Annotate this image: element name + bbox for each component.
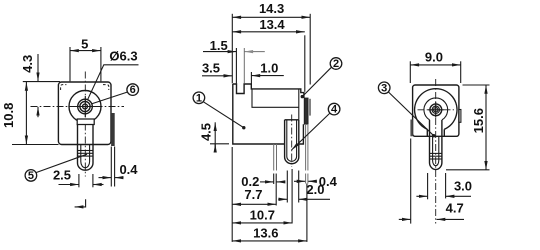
svg-text:7.7: 7.7 — [244, 187, 262, 202]
body left edge and bottom — [233, 84, 304, 144]
dim 13.4 line — [232, 31, 304, 33]
slot rectangle — [77, 119, 94, 125]
pin rings — [78, 150, 94, 152]
dim 1.5 extension lines — [235, 48, 237, 83]
svg-text:1.0: 1.0 — [260, 60, 278, 75]
svg-text:13.6: 13.6 — [253, 225, 278, 240]
balloon 5 — [25, 170, 37, 182]
left extension line — [231, 147, 233, 242]
back lug — [305, 125, 307, 171]
svg-text:0.4: 0.4 — [319, 174, 338, 189]
dim 14.3 extension lines — [231, 14, 233, 84]
dim 0.2 arrows — [260, 181, 274, 183]
dim 5 extension lines — [69, 47, 71, 81]
svg-text:4: 4 — [331, 104, 338, 116]
pin below body: outer walls — [77, 125, 79, 164]
dim 15.6 line — [485, 85, 487, 170]
dim 10.7 extension line — [291, 169, 293, 224]
balloon 4 — [328, 103, 340, 115]
balloon 1 — [193, 92, 205, 104]
svg-text:14.3: 14.3 — [259, 1, 284, 16]
balloon 6 — [127, 84, 139, 96]
svg-text:1.5: 1.5 — [210, 38, 228, 53]
dim 15.6 extension lines — [463, 84, 490, 86]
rear terminal plate (dark) — [304, 98, 308, 124]
bottom edge extension line — [210, 143, 229, 145]
center pin ring inner — [80, 101, 90, 111]
body outline — [413, 85, 459, 136]
dim 13.6 extension line — [306, 184, 308, 242]
internal shield lines — [252, 89, 299, 120]
svg-text:5: 5 — [28, 170, 34, 182]
svg-text:6: 6 — [130, 84, 136, 96]
svg-text:1: 1 — [196, 93, 202, 105]
pin rings — [430, 152, 442, 154]
dim 4.3 lower arrow — [37, 107, 39, 117]
balloon 2 — [330, 58, 342, 70]
svg-text:10.7: 10.7 — [250, 207, 275, 222]
svg-text:5: 5 — [81, 37, 88, 52]
vertical center line — [435, 79, 437, 224]
balloon 4 leader — [292, 113, 330, 150]
svg-text:2.5: 2.5 — [53, 168, 71, 183]
dim 7.7 line — [232, 203, 276, 205]
dim 10.8 line — [25, 82, 27, 144]
dia 6.3 leader — [87, 65, 138, 101]
pin bottom arcs — [430, 163, 442, 170]
svg-text:10.8: 10.8 — [1, 103, 16, 128]
dim 10.7 line — [232, 222, 292, 224]
dim 5 line — [70, 50, 101, 52]
svg-text:4.7: 4.7 — [446, 200, 464, 215]
pin bottom outer arc — [78, 163, 94, 170]
pcb datum mark — [75, 199, 86, 207]
balloon 3 — [378, 82, 390, 94]
pin inner walls — [80, 145, 82, 162]
dim 4.7 extension line — [410, 139, 412, 224]
solid crosshair — [75, 106, 96, 108]
body outline — [58, 82, 111, 145]
dim 9.0 line — [410, 64, 460, 66]
dim 14.3 line — [232, 16, 310, 18]
dome neck lines — [426, 129, 428, 136]
front lug — [273, 144, 275, 171]
dim 3.0 arrows — [416, 195, 427, 197]
dim 0.4 arrows — [294, 180, 306, 182]
svg-text:Ø6.3: Ø6.3 — [109, 49, 137, 64]
lug extension lines — [273, 174, 275, 185]
dim 0.4 extension lines — [110, 147, 112, 187]
horizontal center line — [418, 109, 455, 111]
dim 3.0 extension lines — [427, 173, 429, 199]
center pin tip circle — [83, 104, 88, 109]
balloon 1 leader — [203, 102, 244, 128]
svg-text:4.3: 4.3 — [20, 55, 35, 73]
vertical center line — [84, 72, 86, 177]
svg-text:3: 3 — [381, 82, 387, 94]
right side tab — [459, 110, 461, 123]
dim 9.0 extension lines — [409, 61, 411, 83]
dim 2.5 extension lines — [78, 174, 80, 187]
dim 4.5 line — [214, 122, 216, 126]
body top edge with slot and steps — [233, 84, 304, 98]
dim 3.5 arrow — [202, 75, 232, 77]
dim 2.0 extension lines — [286, 171, 288, 203]
balloon 3 leader — [388, 92, 433, 136]
inner keyhole arc — [424, 98, 448, 120]
svg-text:4.5: 4.5 — [198, 123, 213, 141]
center pin cap — [285, 119, 299, 121]
center pin outer walls — [284, 120, 286, 157]
pin bottom inner arc — [81, 162, 90, 168]
pin center line — [291, 115, 293, 168]
balloon 2 leader — [302, 67, 331, 96]
svg-text:2: 2 — [333, 58, 339, 70]
dim 1.0 extension line — [250, 72, 252, 85]
pin walls below body — [429, 120, 431, 163]
balloon 5 leader — [36, 154, 87, 172]
dim 13.4 extension line — [304, 35, 306, 92]
svg-text:3.5: 3.5 — [202, 60, 220, 75]
svg-text:3.0: 3.0 — [454, 179, 472, 194]
pin inner walls — [432, 136, 434, 160]
corner hidden-line dashes — [61, 85, 67, 90]
center pin inner walls — [286, 120, 288, 157]
top extension line — [23, 81, 60, 83]
svg-text:9.0: 9.0 — [425, 49, 443, 64]
dim 2.0 arrows — [278, 198, 287, 200]
center circles — [430, 104, 442, 116]
side tab (dark) on right edge — [111, 113, 115, 146]
barrel outer circle — [69, 91, 101, 123]
dim 0.4 arrows — [99, 177, 112, 179]
dim 4.3 upper arrow — [37, 54, 39, 81]
svg-text:15.6: 15.6 — [471, 108, 486, 133]
balloon 6 leader — [92, 92, 128, 104]
dim 2.5 arrows — [59, 184, 79, 186]
center pin ring outer — [78, 99, 93, 114]
horizontal center line — [31, 106, 125, 108]
bottom extension line — [12, 144, 59, 146]
svg-text:0.4: 0.4 — [119, 162, 138, 177]
left side tab (dark) — [410, 120, 412, 137]
shield dome arc — [415, 89, 457, 130]
dim 4.7 arrows — [399, 218, 411, 220]
solid crosshair — [428, 109, 444, 111]
dim 13.6 line — [232, 240, 307, 242]
center pin bottom arcs — [285, 157, 299, 164]
svg-text:13.4: 13.4 — [259, 17, 285, 32]
dim 1.0 arrow — [251, 75, 283, 77]
dim 1.5 arrows — [203, 51, 236, 53]
